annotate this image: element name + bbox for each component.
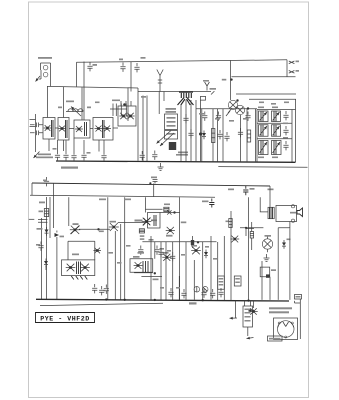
label L33 — [133, 256, 140, 258]
wire v289.9 v296 — [289, 229, 291, 300]
oscillator box L11 — [165, 114, 178, 130]
wire speaker drop — [278, 222, 290, 300]
volume control S2 box — [274, 318, 298, 340]
wire second bus — [40, 303, 163, 305]
capacitor C11 to bus — [140, 151, 145, 160]
capacitor C48 — [243, 186, 254, 195]
transistor V10 — [249, 301, 257, 315]
wire stub left verticals — [58, 138, 105, 152]
transistor V8 — [230, 236, 239, 243]
wire drop x84 — [83, 62, 85, 121]
transistor VT7 — [191, 245, 201, 254]
node j174 — [160, 211, 180, 213]
coil L1 — [66, 101, 83, 117]
wire v154.8 — [154, 242, 156, 259]
wire v56.9 — [56, 239, 58, 299]
capacitor C13 to bus — [152, 151, 157, 160]
speaker terminal 1 — [291, 205, 294, 208]
amp box VT5 — [142, 213, 160, 229]
wire IF top rail 2 — [249, 98, 296, 100]
IF labels — [258, 107, 288, 159]
IF transformer T5b — [272, 141, 282, 155]
capacitor C33 plates — [38, 220, 47, 223]
wire below driver — [134, 272, 162, 276]
capacitor C14 — [188, 129, 193, 138]
capacitor C6 to bus — [53, 148, 61, 160]
wire rail R1 right drop — [269, 186, 271, 208]
RF box V1 — [43, 118, 55, 140]
node C49 label — [268, 189, 274, 191]
wire y77 rail — [232, 76, 296, 78]
wire verticals mid-low — [108, 197, 125, 299]
fuse F1 — [295, 295, 302, 300]
wire right edge drop — [295, 301, 301, 339]
capacitor C26 — [283, 141, 288, 150]
node dots bus — [105, 298, 126, 301]
wire inner box — [68, 241, 95, 260]
capacitor C36 — [138, 246, 145, 255]
capacitor C12 — [183, 114, 188, 123]
capacitor C40 — [170, 252, 175, 261]
wire TP4 vertical pair — [141, 96, 147, 162]
wire vertical x138 box right — [137, 88, 139, 161]
wire feeds from top line — [48, 87, 83, 121]
transistor VT3 — [70, 223, 80, 234]
wire drop x131 — [130, 62, 132, 92]
crystal Y1 — [203, 80, 209, 91]
ground G1 — [158, 163, 164, 170]
aerial A1 — [157, 70, 163, 92]
aerial socket label — [36, 154, 53, 159]
capacitor C5 input — [30, 131, 43, 136]
resistor R18 — [247, 130, 250, 142]
aerial terminal wires — [30, 114, 36, 152]
wire osc rail verticals — [181, 100, 201, 161]
transistor V7 small — [93, 248, 101, 254]
label column — [199, 113, 248, 122]
label C4x — [37, 228, 43, 230]
capacitor C18 — [217, 130, 222, 139]
diode D2 — [289, 70, 299, 73]
capacitor C31 on R1 — [149, 177, 157, 185]
label L34 — [72, 254, 79, 256]
capacitor C9 to bus — [81, 151, 90, 160]
diode D9 — [282, 239, 291, 249]
capacitor C38 — [191, 236, 194, 248]
wire drop x235.6 — [235, 301, 237, 319]
label Tape — [189, 302, 197, 304]
wire V6 to VT5 — [118, 222, 148, 224]
capacitor C20 — [238, 128, 243, 137]
output transformer T6 — [268, 207, 274, 218]
capacitor C39 — [158, 248, 163, 257]
wire bus A left drop — [76, 62, 78, 86]
transistor VT6 — [166, 227, 175, 237]
oscillator label — [176, 152, 188, 156]
caps row y292 — [168, 288, 223, 298]
capacitor C7 to bus — [63, 151, 68, 160]
diode D3 — [202, 131, 206, 140]
switch box S1 — [243, 306, 253, 327]
wire IF left rail — [256, 110, 258, 163]
capacitor box C44 — [260, 267, 276, 277]
IF transformer T5 — [259, 141, 269, 155]
capacitor C1 on bus — [87, 62, 92, 71]
wire verticals center-low — [151, 211, 231, 300]
wire quad verticals — [202, 109, 256, 162]
wire v300 up — [299, 299, 301, 303]
caps under y285 — [92, 284, 109, 295]
small arrow low — [248, 309, 254, 312]
wire branch y219 — [29, 218, 35, 220]
wire y229.3 — [79, 228, 110, 232]
capacitor C2 — [120, 63, 125, 72]
node junction x141 — [141, 57, 146, 59]
transistor VT8 — [162, 252, 171, 261]
label R42 — [149, 239, 154, 241]
box hatch bottom — [71, 276, 87, 280]
RF box T1b — [118, 101, 136, 126]
wire v248.5 — [248, 197, 250, 300]
transformer core T2 — [169, 142, 176, 150]
microphone MIC1 label — [38, 57, 52, 59]
wire rail R1 — [32, 183, 270, 186]
oscillator text AM-FM — [166, 108, 177, 113]
speaker terminal 2 — [291, 219, 294, 222]
wire drop x244 x250 — [245, 301, 251, 336]
driver box L33 — [130, 259, 153, 273]
diode D1 — [289, 61, 299, 64]
wire into VT5 — [146, 197, 163, 209]
wire IF row connector 1 — [257, 122, 292, 124]
wire IF row connector 2 — [257, 138, 292, 140]
wire bus A — [77, 60, 288, 63]
title text — [40, 315, 90, 322]
wire v262 low — [262, 261, 270, 300]
capacitor C1 label — [93, 64, 98, 66]
ground G2 — [264, 254, 270, 261]
volume text line1 — [269, 307, 292, 309]
wire v260 — [260, 197, 268, 212]
wire v179.6 lower — [179, 242, 181, 300]
crystal holder — [201, 96, 206, 100]
wire bottom bus — [36, 299, 289, 301]
RF row wires — [55, 127, 118, 130]
capacitor quad c — [245, 112, 250, 121]
resistor R2x — [226, 219, 233, 228]
label L27 — [290, 212, 296, 214]
capacitor C22 — [283, 111, 288, 120]
RF box V1b — [58, 118, 69, 141]
IF specks — [259, 102, 289, 105]
rotor rivets — [278, 322, 293, 338]
wire y227.8 — [240, 227, 263, 229]
IF transformer T3 — [259, 111, 269, 122]
wire vertical x128 — [127, 88, 129, 121]
labels mid — [140, 235, 145, 240]
node j198 — [197, 241, 199, 243]
wire mic to box — [50, 80, 52, 86]
diode D6 — [167, 210, 171, 214]
capacitor C3 — [134, 63, 139, 72]
capacitor quad b — [216, 112, 221, 121]
arrow to switch — [230, 317, 238, 320]
wire RF stubs — [49, 139, 99, 152]
label SM — [39, 202, 45, 204]
transistor V5 — [235, 99, 249, 114]
wire feed x68.8 — [68, 197, 70, 226]
resistor R16 — [212, 129, 215, 143]
mic label — [61, 167, 78, 169]
tuning arrow 1 — [157, 131, 172, 144]
capacitor C24 — [283, 126, 288, 135]
capacitor C32 — [202, 199, 214, 208]
capacitor C30 on R1 — [43, 177, 49, 186]
wire rail R2 — [30, 195, 215, 197]
capacitor C10 to bus — [101, 152, 106, 161]
wire IF top rail 1 — [236, 93, 296, 95]
svg-text:PYE - VHF2D: PYE - VHF2D — [40, 315, 90, 322]
diode D5 — [44, 259, 48, 271]
wire osc verticals — [159, 92, 164, 115]
RF top specks — [58, 102, 100, 109]
IF transformer T3b — [272, 111, 281, 122]
label L32 — [135, 220, 158, 222]
microphone arrow — [36, 76, 41, 82]
arrow bottom — [247, 337, 254, 340]
wire IF rail y109.5 — [257, 109, 296, 111]
resistor R31 — [139, 229, 144, 233]
transistor V6 — [109, 221, 119, 231]
speaker box LS1 — [276, 206, 297, 222]
capacitor C8 to bus — [71, 152, 76, 161]
wire drop x153.7 — [153, 184, 155, 198]
diode D8 — [204, 250, 208, 259]
volume text line2 — [269, 311, 289, 313]
capacitor C37 — [154, 246, 164, 255]
trimmer TC2 — [202, 287, 208, 293]
test point TP6 — [228, 189, 234, 191]
wire mid y242 — [142, 241, 216, 243]
box RLB — [234, 276, 241, 286]
resistor R34 — [164, 204, 170, 212]
part number box — [268, 336, 283, 341]
wire VT5 top corner — [145, 209, 147, 212]
wire chassis rail — [218, 166, 307, 169]
bus junction dots — [154, 299, 250, 302]
wire main bus upper — [56, 161, 296, 162]
oscillator box L12 — [165, 131, 178, 140]
test point TP5 — [210, 88, 217, 95]
aerial arrow — [34, 152, 40, 159]
wire v179.6 upper — [179, 197, 181, 242]
title box — [36, 313, 95, 323]
IF transformer T4 — [259, 125, 269, 137]
wire IF right rails — [292, 99, 296, 162]
node dot x200 — [199, 133, 202, 136]
IF transformer T4b — [272, 125, 281, 137]
transistor V4 — [226, 100, 238, 116]
microphone MIC1 — [39, 63, 51, 80]
wire y92 rail — [138, 91, 211, 93]
diode D4 — [45, 227, 49, 236]
capacitor quad a — [202, 112, 207, 121]
trimmer TC1 — [194, 287, 200, 293]
labels low row — [109, 245, 218, 289]
wire top-left box edge — [47, 86, 138, 88]
resistor R50 — [250, 222, 253, 250]
volume control rotor — [277, 321, 294, 338]
capacitor C45 — [266, 274, 270, 277]
wire left verticals — [42, 183, 54, 299]
wire right bracket vertical — [286, 60, 288, 77]
speaker LS1 icon — [297, 208, 303, 217]
relay box RLA — [218, 276, 225, 289]
label R27 — [181, 222, 187, 224]
resistor R5 — [39, 209, 49, 217]
wire step right — [246, 229, 254, 237]
RF box V2 — [74, 120, 90, 138]
wire y108.8 rail — [196, 108, 257, 110]
capacitor C34 — [36, 242, 44, 251]
node junction x123 — [119, 59, 123, 61]
transistor V9 — [262, 235, 272, 252]
RF box V2b — [93, 118, 113, 141]
RF cluster T1 — [110, 100, 127, 117]
capacitor C19 — [224, 132, 229, 141]
output box L34 — [62, 260, 95, 276]
label D5x — [99, 199, 131, 201]
mixer fan transistor V3 — [178, 91, 194, 105]
diode D10 — [55, 231, 65, 240]
tuning arrow 2 — [160, 133, 174, 146]
capacitor C4 input — [30, 123, 43, 128]
wire rail R1 left drop — [31, 183, 33, 195]
wire drop x230 — [222, 61, 233, 101]
